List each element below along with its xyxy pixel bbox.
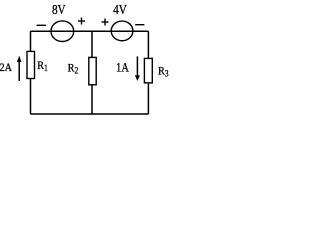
svg-text:R1: R1 [37, 59, 48, 73]
svg-text:R3: R3 [158, 65, 169, 79]
svg-text:R2: R2 [68, 62, 79, 76]
svg-text:8V: 8V [52, 2, 66, 17]
svg-text:1A: 1A [116, 60, 129, 74]
svg-text:2A: 2A [0, 61, 12, 74]
svg-text:4V: 4V [113, 2, 127, 17]
